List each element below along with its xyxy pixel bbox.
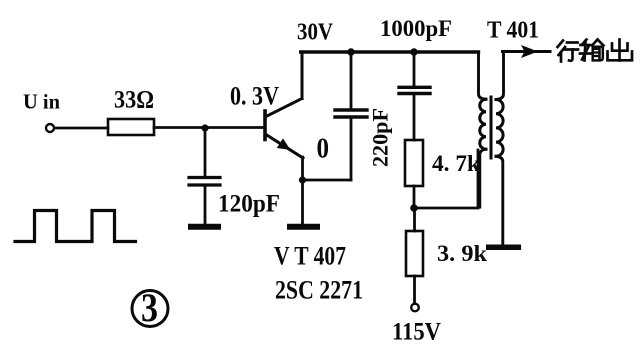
- svg-text:0. 3V: 0. 3V: [230, 82, 279, 111]
- svg-text:30V: 30V: [297, 19, 333, 46]
- node 115V terminal: [411, 304, 419, 312]
- wire C2 bottom to emitter node: [303, 179, 352, 182]
- char chu: [608, 40, 633, 61]
- capacitor C2 220pF: [335, 52, 367, 180]
- wire emitter down to ground: [301, 157, 304, 225]
- svg-text:T 401: T 401: [487, 18, 539, 44]
- capacitor C1 120pF: [189, 178, 220, 225]
- wire R2 to node: [413, 186, 416, 208]
- node R2-R3 junction dot: [410, 204, 418, 212]
- transformer T401 secondary winding: [496, 52, 504, 245]
- svg-text:U in: U in: [23, 90, 60, 114]
- svg-text:3: 3: [141, 285, 158, 330]
- char shu: [580, 40, 604, 61]
- svg-text:220pF: 220pF: [368, 108, 393, 167]
- svg-text:33Ω: 33Ω: [114, 87, 154, 114]
- wire output with arrow: [503, 50, 551, 53]
- resistor R2 4.7k: [405, 140, 423, 186]
- wire R1 to base node: [154, 126, 264, 129]
- node rail junction C3: [410, 48, 417, 55]
- node base junction dot: [201, 124, 208, 131]
- svg-text:115V: 115V: [392, 319, 441, 346]
- node emitter junction dot: [299, 176, 306, 183]
- wire collector up to rail: [301, 52, 304, 99]
- capacitor C3 1000pF: [399, 52, 430, 140]
- wire R3 to 115V terminal: [413, 276, 416, 304]
- transistor VT407: [265, 99, 303, 159]
- ground under C1: [191, 224, 218, 230]
- wire 30V top rail: [301, 50, 479, 53]
- arrow output: [521, 45, 538, 58]
- wire node to primary bottom: [414, 150, 478, 208]
- resistor R3 3.9k: [406, 208, 423, 276]
- waveform square wave: [15, 211, 136, 242]
- svg-text:V T 407: V T 407: [274, 242, 346, 271]
- node U-in input terminal: [46, 124, 54, 132]
- figure number circled 3: [132, 285, 168, 330]
- resistor R1 33ohm: [108, 119, 154, 135]
- node rail junction C2: [347, 48, 354, 55]
- svg-text:0: 0: [317, 133, 330, 165]
- svg-text:1000pF: 1000pF: [380, 16, 452, 42]
- svg-text:4. 7k: 4. 7k: [432, 151, 481, 177]
- svg-text:2SC 2271: 2SC 2271: [275, 276, 363, 305]
- char xing: [558, 41, 579, 62]
- transformer T401 core: [490, 97, 493, 158]
- label hang shu chu (line output): [558, 40, 633, 62]
- transformer T401 primary winding: [479, 52, 487, 207]
- ground under secondary: [489, 245, 519, 251]
- wire node down to C1: [204, 128, 207, 176]
- svg-text:3. 9k: 3. 9k: [437, 241, 488, 267]
- ground under emitter: [290, 224, 317, 230]
- wire input to R1: [55, 127, 109, 130]
- svg-text:120pF: 120pF: [218, 191, 280, 218]
